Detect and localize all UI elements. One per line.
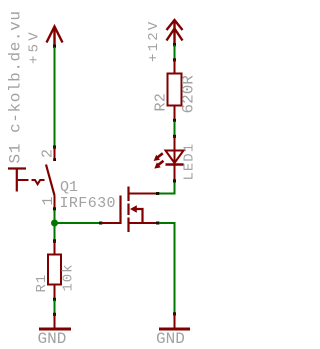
svg-text:2: 2 [40, 149, 57, 158]
diode LED1 cathode bar [166, 163, 184, 165]
LED1 emission arrow lower [158, 161, 164, 166]
svg-text:+12V: +12V [146, 20, 162, 62]
resistor R2 pin top [174, 60, 176, 74]
pin end dot R1 bottom [53, 298, 56, 301]
svg-text:LED1: LED1 [182, 143, 198, 181]
transistor Q1 bulk arrow [130, 205, 137, 212]
transistor Q1 channel bottom segment [127, 218, 129, 233]
switch S1 pin 2 stub [54, 147, 56, 160]
pin end dot LED cathode [173, 179, 176, 182]
svg-text:620R: 620R [180, 75, 198, 114]
wire source to GND right [159, 223, 175, 313]
switch S1 contact dot [53, 158, 56, 161]
resistor R2 pin bottom [174, 106, 176, 120]
svg-text:IRF630: IRF630 [60, 195, 116, 212]
diode LED1 triangle [166, 151, 184, 164]
supply +5V arrow [47, 27, 63, 47]
junction node [51, 220, 58, 227]
wire +5V rail to S1 pin2 [54, 47, 56, 146]
resistor R1 pin top [54, 241, 56, 255]
switch S1 pin 1 stub [54, 196, 56, 210]
pin end dot R2 top [173, 58, 176, 61]
wire +12V to R2 [174, 45, 176, 59]
resistor R2 body [168, 74, 182, 106]
pin end dot GND left [53, 313, 56, 316]
transistor Q1 source lead [129, 222, 158, 224]
svg-text:S1 c-kolb.de.vu: S1 c-kolb.de.vu [7, 10, 25, 163]
pin end dot +5V [53, 45, 56, 48]
switch S1 plunger dashed link [18, 180, 45, 184]
svg-text:+5V: +5V [27, 29, 43, 64]
svg-text:R1: R1 [34, 274, 50, 293]
ground GND left pin [54, 315, 56, 329]
pin end dot S1 pin1 [53, 207, 56, 210]
ground GND right bar [159, 328, 190, 331]
pin end dot R2 bottom [173, 119, 176, 122]
resistor R1 body [48, 255, 61, 285]
transistor Q1 drain lead [129, 193, 158, 195]
LED1 emission arrow upper [157, 153, 163, 158]
pin end dot S1 pin2 [53, 146, 56, 149]
switch S1 button cap [8, 169, 26, 192]
svg-text:Q1: Q1 [60, 179, 78, 196]
wire S1 pin1 to junction [54, 210, 56, 223]
resistor R1 pin bottom [54, 285, 56, 299]
transistor Q1 channel middle segment [127, 204, 129, 216]
pin end dot +12V [173, 43, 176, 46]
transistor Q1 gate bar [119, 196, 121, 225]
ground GND left bar [39, 328, 71, 331]
wire R1 to GND left [54, 300, 56, 314]
pin end dot R1 top [53, 239, 56, 243]
pin end dot GND right [173, 312, 176, 315]
diode LED1 anode pin [174, 137, 176, 164]
pin end dot drain [156, 192, 159, 195]
svg-text:GND: GND [156, 330, 185, 348]
transistor Q1 channel top segment [127, 187, 129, 202]
switch S1 blade [46, 165, 55, 196]
wire R2 to LED1 [174, 121, 176, 136]
diode LED1 cathode pin [174, 165, 176, 181]
pin end dot gate [99, 222, 102, 225]
pin end dot LED anode [173, 135, 176, 138]
wire junction to R1 [54, 223, 56, 240]
supply +12V arrow [167, 20, 183, 45]
svg-text:R2: R2 [153, 93, 170, 112]
ground GND right pin [174, 314, 176, 328]
transistor Q1 gate pin [102, 222, 121, 224]
svg-text:GND: GND [38, 330, 67, 348]
svg-text:10k: 10k [61, 264, 77, 292]
wire drain to LED [159, 181, 175, 194]
wire junction to gate [55, 222, 100, 224]
pin end dot source [156, 222, 159, 225]
